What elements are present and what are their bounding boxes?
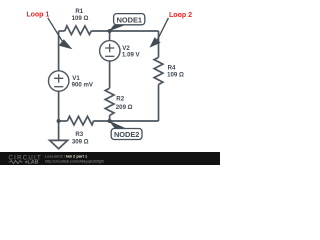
svg-text:109 Ω: 109 Ω xyxy=(72,15,89,22)
svg-text:R2: R2 xyxy=(116,96,124,103)
svg-text:NODE1: NODE1 xyxy=(117,16,142,25)
svg-text:309 Ω: 309 Ω xyxy=(72,138,89,145)
svg-text:109 Ω: 109 Ω xyxy=(167,71,184,78)
svg-text:Loop 1: Loop 1 xyxy=(26,12,49,19)
svg-text:Loop 2: Loop 2 xyxy=(169,12,192,19)
svg-text:NODE2: NODE2 xyxy=(114,130,139,139)
svg-text:1.09 V: 1.09 V xyxy=(122,52,141,59)
svg-text:LeeLee02 / lab 2 part 1: LeeLee02 / lab 2 part 1 xyxy=(45,154,88,159)
svg-text:http://circuitlab.com/c48eyq8u: http://circuitlab.com/c48eyq8u52fg5/ xyxy=(45,159,105,163)
svg-text:209 Ω: 209 Ω xyxy=(116,104,133,111)
svg-text:900 mV: 900 mV xyxy=(72,82,94,89)
svg-text:LAB: LAB xyxy=(28,160,39,166)
svg-text:R3: R3 xyxy=(75,131,83,138)
